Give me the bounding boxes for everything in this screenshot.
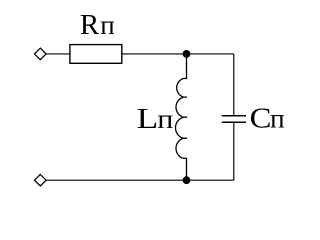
node B (bottom junction dot) bbox=[183, 176, 191, 184]
svg-text:L: L bbox=[137, 103, 159, 135]
svg-text:R: R bbox=[80, 9, 100, 41]
terminal T1 (top-left open diamond) bbox=[35, 48, 47, 60]
resistor Rп (rectangle body) bbox=[70, 45, 122, 64]
terminal T2 (bottom-left open diamond) bbox=[35, 174, 47, 186]
wire top rail: node A to top-right corner bbox=[187, 53, 234, 55]
node A (top junction dot) bbox=[183, 50, 191, 58]
capacitor Cп (two plates) bbox=[222, 115, 246, 117]
inductor Lп (4-loop coil on vertical wire) bbox=[176, 54, 187, 180]
svg-text:п: п bbox=[100, 10, 114, 40]
wire right branch: capacitor down to bottom corner bbox=[233, 123, 235, 180]
svg-text:п: п bbox=[270, 104, 285, 134]
wire top rail: resistor to node A bbox=[122, 53, 187, 55]
wire right branch: top corner down to capacitor bbox=[233, 54, 235, 115]
svg-text:C: C bbox=[250, 103, 272, 135]
svg-text:п: п bbox=[157, 104, 173, 134]
wire top rail: diamond to resistor bbox=[46, 53, 70, 55]
wire bottom rail: diamond through node B to bottom-right corner bbox=[46, 179, 234, 181]
